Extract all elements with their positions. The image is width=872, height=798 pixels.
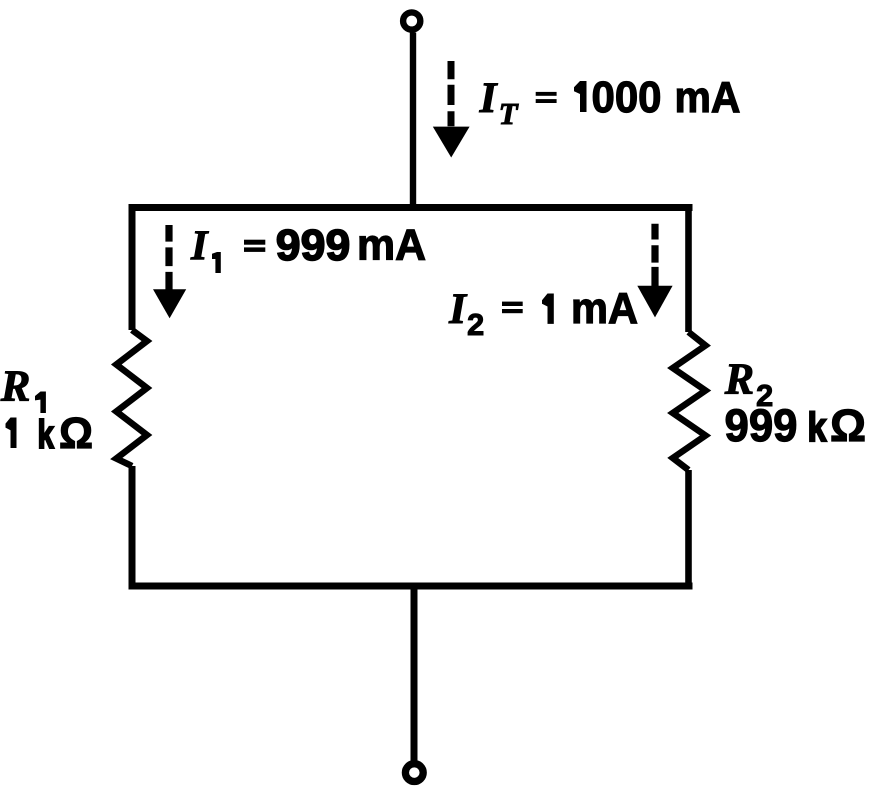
svg-text:mA: mA [357, 221, 426, 270]
svg-text:mA: mA [571, 284, 638, 333]
svg-text:Ω: Ω [830, 400, 866, 451]
svg-text:R: R [724, 355, 754, 404]
svg-text:k: k [808, 404, 827, 450]
svg-text:I: I [190, 223, 209, 270]
svg-text:I: I [448, 285, 468, 333]
svg-text:2: 2 [467, 307, 484, 342]
svg-text:000: 000 [592, 73, 662, 122]
svg-text:999: 999 [276, 221, 351, 270]
svg-text:R: R [0, 361, 30, 411]
svg-text:T: T [499, 96, 519, 131]
svg-text:Ω: Ω [59, 409, 93, 458]
svg-text:I: I [479, 74, 499, 122]
svg-text:mA: mA [675, 73, 741, 122]
svg-text:k: k [38, 413, 55, 457]
svg-text:999: 999 [725, 400, 798, 451]
